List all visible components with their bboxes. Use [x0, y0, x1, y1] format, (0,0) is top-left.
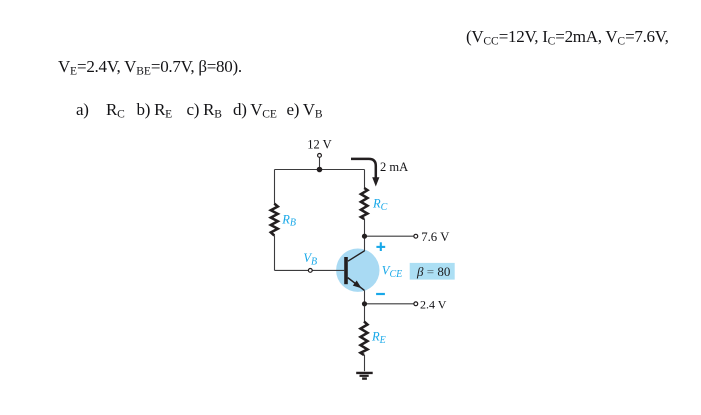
svg-text:VCE: VCE	[382, 264, 402, 280]
svg-text:RE: RE	[371, 330, 386, 346]
svg-text:12 V: 12 V	[307, 138, 331, 152]
svg-text:RB: RB	[281, 212, 296, 228]
svg-text:7.6 V: 7.6 V	[421, 230, 450, 244]
svg-text:RC: RC	[372, 196, 388, 212]
svg-text:2 mA: 2 mA	[380, 160, 408, 174]
svg-text:VB: VB	[303, 251, 317, 267]
svg-text:2.4 V: 2.4 V	[420, 298, 447, 312]
svg-text:β = 80: β = 80	[416, 264, 450, 279]
